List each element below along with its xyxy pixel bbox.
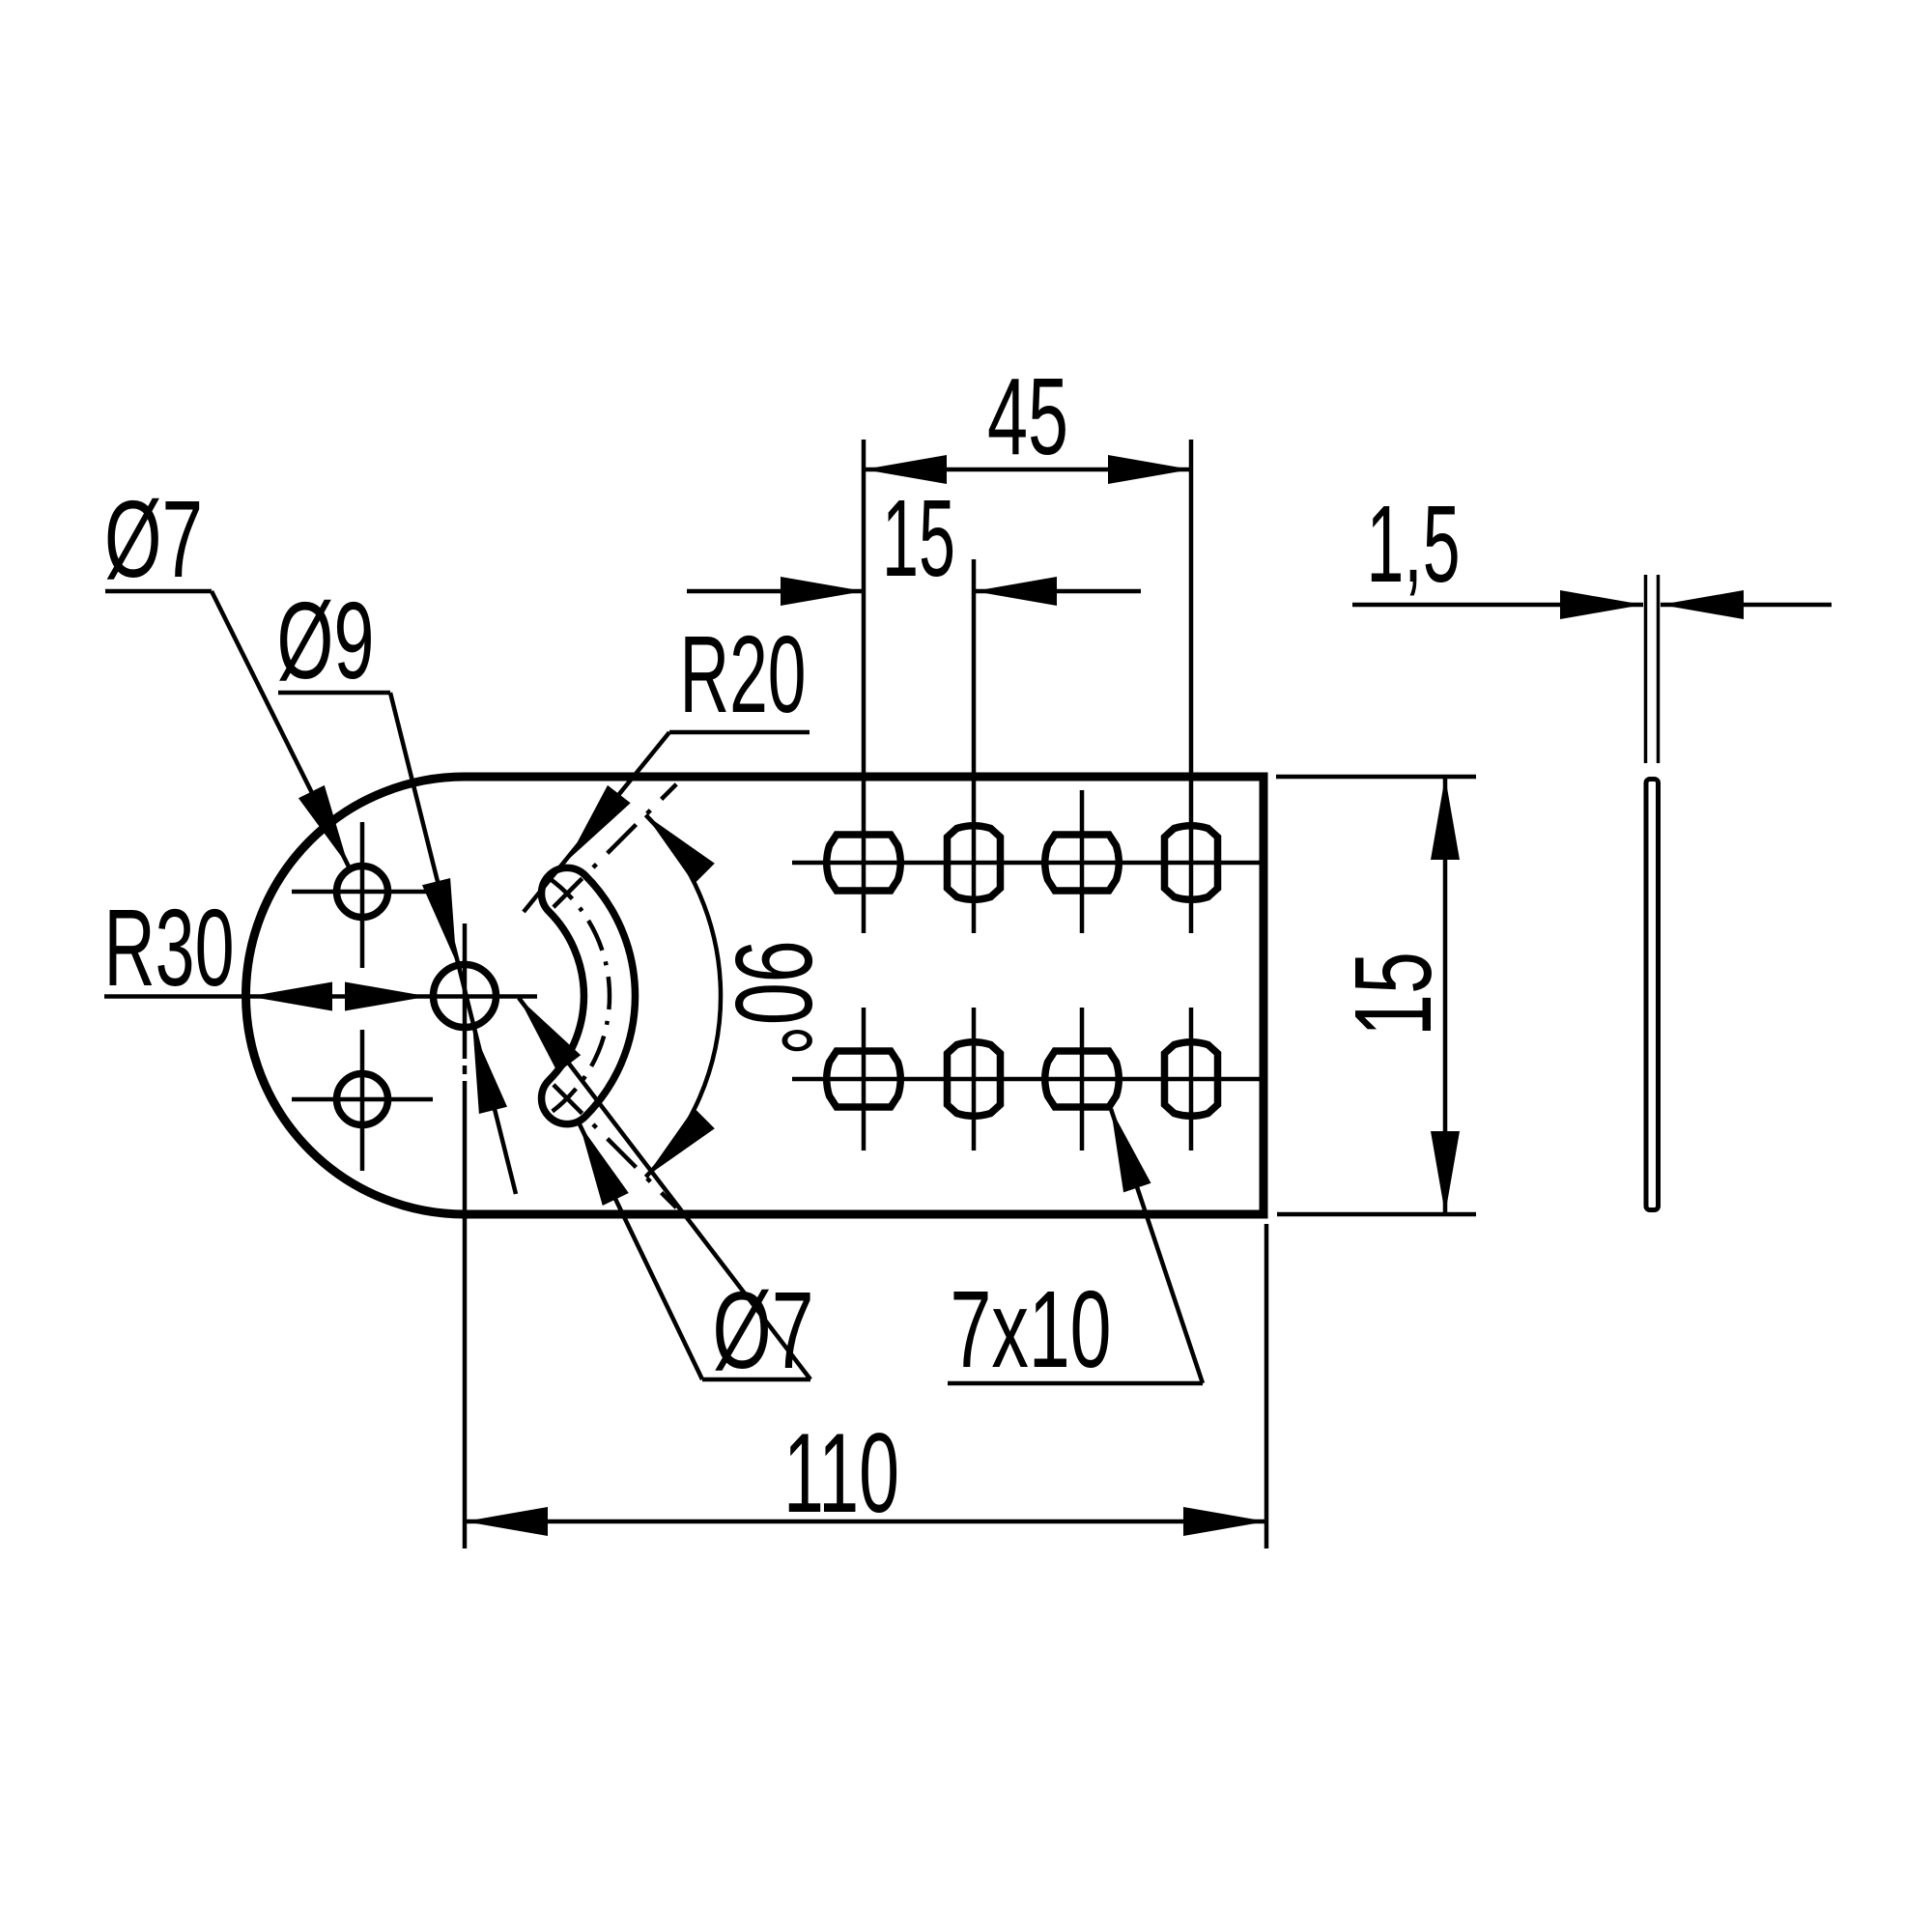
hex hole row2 col2 <box>948 1042 1001 1116</box>
dimension 15 top: right segment <box>974 589 1141 594</box>
col1 vertical centerline row2 <box>862 1008 867 1151</box>
leader Ø7 to upper-left hole <box>212 591 349 867</box>
centerline horizontal upper-left hole <box>292 890 433 895</box>
dimension 45 line <box>864 468 1191 472</box>
radial extension dash line upper 45deg <box>554 784 676 907</box>
plate outline (main view) <box>245 777 1264 1214</box>
hex hole row1 col2 <box>948 826 1001 899</box>
side view: thickness extension double line <box>1644 575 1648 763</box>
angular dimension arc 90deg <box>645 815 721 1178</box>
hex hole row2 col1 <box>827 1051 900 1107</box>
leader Ø7 bottom to slot lower end <box>580 1124 702 1379</box>
Ø9 arrowhead lower <box>473 1030 507 1114</box>
hex hole row1 col3 <box>1045 835 1119 891</box>
svg-text:45: 45 <box>987 355 1068 477</box>
leader underline Ø7 bottom <box>702 1378 810 1382</box>
svg-text:Ø7: Ø7 <box>713 1269 814 1391</box>
hex hole row2 col3 <box>1045 1051 1119 1107</box>
svg-text:15: 15 <box>882 477 955 599</box>
col3 vertical centerline row1 <box>1080 790 1085 933</box>
radial extension dash line lower 45deg <box>554 1085 676 1207</box>
arrowhead at Ø9 hole left edge <box>345 982 428 1011</box>
svg-text:7x10: 7x10 <box>951 1268 1112 1390</box>
curved slot R20 x Ø7 <box>542 867 636 1123</box>
svg-text:1,5: 1,5 <box>1367 483 1461 605</box>
leader 7x10 to hex hole row2 col3 <box>1111 1109 1203 1383</box>
hole Ø7 lower-left <box>337 1074 388 1125</box>
centerline vertical lower-left hole <box>360 1030 365 1171</box>
R30 arrowhead at arc <box>249 982 332 1011</box>
dimension 110: left extension is Ø9 centerline, right extension line <box>1264 1224 1269 1548</box>
svg-text:R20: R20 <box>680 613 807 735</box>
centerline vertical of Ø9 / extension for 110 <box>463 923 468 1059</box>
hole Ø9 (center hole) <box>434 965 497 1028</box>
svg-text:Ø7: Ø7 <box>104 478 203 600</box>
svg-text:15: 15 <box>1332 952 1454 1037</box>
col4 vertical centerline row1 + extension for 45 dim <box>1189 440 1194 933</box>
dimension 15 top: left segment <box>687 589 864 594</box>
col1 vertical centerline row1 + extension for 45/15 dims <box>862 440 867 933</box>
slot centerline arc (dash-dot) <box>548 877 610 1115</box>
dimension 15 right: bottom extension line <box>1277 1212 1476 1217</box>
R20 arrowhead at slot upper cap <box>568 785 631 860</box>
dimension 1,5: left line <box>1352 603 1643 608</box>
leader Ø9 through center hole (diameter line) <box>390 693 516 1194</box>
col2 vertical centerline row1 + extension for 15 dim <box>972 559 977 933</box>
row1 horizontal centerline <box>792 861 1264 866</box>
dimension 1,5: right line <box>1661 603 1832 608</box>
leader underline R20 <box>669 730 810 735</box>
leader R20 to slot upper end <box>524 732 669 912</box>
dimension 15 right: top extension line <box>1276 775 1476 780</box>
col4 vertical centerline row2 <box>1189 1008 1194 1151</box>
dimension line R30 to arc leftmost point <box>104 994 537 999</box>
leader underline Ø9 <box>278 691 390 696</box>
row2 horizontal centerline <box>792 1077 1264 1082</box>
dimension 15 right line <box>1443 777 1448 1214</box>
second leader Ø7 bottom toward center <box>519 998 810 1379</box>
hole Ø7 upper-left <box>337 867 388 918</box>
svg-text:110: 110 <box>783 1409 899 1536</box>
centerline vertical upper-left hole <box>360 822 365 968</box>
col2 vertical centerline row2 <box>972 1008 977 1151</box>
side view plate body <box>1646 780 1659 1210</box>
svg-text:Ø9: Ø9 <box>277 580 375 701</box>
centerline horizontal lower-left hole <box>292 1097 433 1102</box>
hex hole row1 col1 <box>827 835 900 891</box>
col3 vertical centerline row2 <box>1080 1008 1085 1151</box>
svg-text:90°: 90° <box>713 940 835 1056</box>
dimension 110 line <box>465 1520 1266 1524</box>
leader underline 7x10 <box>948 1381 1203 1386</box>
leader underline Ø7 <box>105 589 212 594</box>
svg-text:R30: R30 <box>104 887 235 1009</box>
Ø9 arrowhead upper <box>422 878 456 962</box>
hex hole row1 col4 <box>1165 826 1218 899</box>
hex hole row2 col4 <box>1165 1042 1218 1116</box>
